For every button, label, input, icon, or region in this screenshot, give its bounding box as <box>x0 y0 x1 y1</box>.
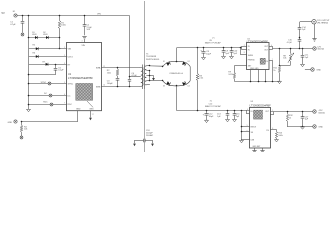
wire VIN top rail <box>17 15 130 17</box>
capacitor C2 <box>83 25 93 36</box>
node junction bridge top <box>176 61 178 63</box>
svg-text:8: 8 <box>272 128 273 130</box>
node +14V note <box>205 38 222 45</box>
diode bridge D3 lower-left <box>163 81 171 88</box>
pin label U3 EN <box>251 127 257 129</box>
svg-text:WURTH ELEK.: WURTH ELEK. <box>146 59 160 61</box>
resistor R9 SET <box>228 72 235 82</box>
resistor R6 <box>33 52 39 58</box>
pin label U2 GND <box>250 68 259 70</box>
pin label VIN left <box>68 49 72 51</box>
node junction BNC branch <box>299 48 301 50</box>
resistor R5 <box>33 45 39 51</box>
svg-text:SYNC: SYNC <box>68 84 74 86</box>
svg-text:SWB: SWB <box>96 86 101 88</box>
svg-text:LT3999EMSE#PBF: LT3999EMSE#PBF <box>68 76 93 80</box>
svg-text:5V: 5V <box>2 11 5 15</box>
svg-text:10Ω: 10Ω <box>107 73 111 75</box>
pin label SWB <box>96 86 101 88</box>
svg-text:3: 3 <box>64 63 65 65</box>
wire U2 ground bus <box>234 81 279 83</box>
terminal BNC 12V output <box>312 20 316 24</box>
wire U2 GND pins down <box>250 70 267 82</box>
svg-text:GND: GND <box>8 122 13 124</box>
wire pin2 row <box>29 56 67 58</box>
svg-text:VIN: VIN <box>97 13 101 15</box>
svg-text:10k: 10k <box>283 58 286 60</box>
capacitor C18 Y-cap <box>134 130 154 142</box>
node junction snubber top <box>117 67 119 69</box>
pin label U2 IN2 <box>248 49 250 51</box>
capacitor C16 <box>233 110 241 119</box>
capacitor C10 <box>230 48 238 57</box>
svg-text:6: 6 <box>64 94 65 96</box>
wire U2 SET <box>234 66 246 73</box>
svg-text:24.9k: 24.9k <box>228 74 233 76</box>
wire top pin stub <box>84 40 86 43</box>
inductor T1 core <box>143 65 145 90</box>
svg-text:VIN: VIN <box>68 49 72 51</box>
pin label U2 PG <box>265 61 268 63</box>
wire +12V out rail <box>273 48 313 50</box>
svg-text:10µF: 10µF <box>209 116 215 118</box>
resistor R2 snubber <box>107 68 119 77</box>
wire SWB <box>102 86 140 88</box>
pin label U3 SS <box>251 132 254 134</box>
node junction R10 top <box>279 48 281 50</box>
wire UVLO row <box>28 37 60 39</box>
ground C12 <box>205 120 209 122</box>
wire center tap to ground <box>150 76 154 79</box>
wire EN drop U2 <box>241 48 247 55</box>
wire SWA <box>102 67 140 69</box>
wire preload drop <box>197 48 199 111</box>
wire DC row <box>28 95 67 97</box>
ground EN drop U3 <box>240 140 244 142</box>
wire center tap <box>130 76 140 78</box>
pin label U2 SHDN <box>248 55 254 57</box>
svg-text:4: 4 <box>247 109 248 111</box>
op-amp U2 refdes <box>247 39 250 41</box>
svg-text:D3: D3 <box>163 86 165 88</box>
svg-text:4.7µF: 4.7µF <box>131 75 137 77</box>
op-amp U1 refdes <box>68 73 72 76</box>
ground U3 bottom pin 1 <box>252 151 256 154</box>
ground GND2 arrow <box>89 118 92 121</box>
terminal E6 GND <box>311 68 322 72</box>
pin label DC <box>68 96 71 98</box>
wire secondary tap bus <box>149 70 151 82</box>
op-amp U2 partnum <box>247 39 269 43</box>
node junction C2 <box>84 15 86 17</box>
svg-text:5: 5 <box>247 125 248 127</box>
wire +rail to U2 <box>177 47 242 49</box>
ground Y-cap left arrow <box>133 144 136 147</box>
svg-text:4: 4 <box>82 41 83 43</box>
capacitor C4 <box>128 73 138 87</box>
node junction C12 <box>206 110 208 112</box>
terminal RDC turret <box>43 102 53 106</box>
pin label GND1 <box>76 109 81 111</box>
wire U3 OUT rail <box>271 111 314 113</box>
node junction C16 <box>234 110 236 112</box>
ground C9 <box>222 56 226 58</box>
svg-text:SANYO POSCAP: SANYO POSCAP <box>205 42 222 45</box>
wire R1 to VIN pin <box>59 38 61 50</box>
ground C2 <box>82 37 86 40</box>
node junction R12 top <box>287 111 289 113</box>
wire GND1 pin down-left <box>22 111 78 122</box>
node junction R4 top <box>21 121 23 123</box>
resistor R4 <box>20 122 28 137</box>
wire secondary to bridge bottom <box>150 80 163 81</box>
terminal E1 VIN <box>13 11 17 17</box>
wire -12V lower node <box>287 126 313 128</box>
node junction C4 bottom <box>129 86 131 88</box>
node junction preload top <box>197 47 199 49</box>
resistor R10 <box>273 65 280 81</box>
capacitor C12 <box>203 110 215 120</box>
svg-text:SHDN: SHDN <box>248 55 254 57</box>
svg-text:UVLO: UVLO <box>68 57 74 59</box>
node junction C10 <box>231 47 233 49</box>
ground C11 <box>301 64 305 66</box>
node junction VIN rail <box>28 15 30 17</box>
svg-text:EN/UV: EN/UV <box>251 127 257 129</box>
node VIN net label <box>97 13 101 15</box>
node junction C11 top <box>302 48 304 50</box>
svg-text:SANYO POSCAP: SANYO POSCAP <box>205 105 222 108</box>
terminal E5 12V <box>313 46 325 50</box>
terminal GND turret E2 <box>8 120 18 124</box>
svg-text:GND: GND <box>89 109 94 111</box>
wire U2 OUT stubs <box>269 46 272 49</box>
capacitor C14 upper <box>298 22 307 31</box>
svg-text:7: 7 <box>64 103 65 105</box>
svg-text:5: 5 <box>64 82 65 84</box>
ground secondary center tap arrow <box>152 78 155 81</box>
svg-text:GND: GND <box>318 127 323 129</box>
node junction preload bottom <box>197 110 199 112</box>
svg-text:RDC: RDC <box>68 104 73 106</box>
pin label U3 OUT <box>265 111 270 113</box>
node junction R1 top <box>59 15 61 17</box>
ground C13 <box>226 119 230 121</box>
wire GND2 pin down <box>91 111 94 118</box>
inductor T1 secondary winding <box>144 66 146 85</box>
svg-text:4148: 4148 <box>32 34 36 36</box>
wire pin3 row <box>29 64 67 66</box>
node U3 exposed pad <box>254 110 263 119</box>
capacitor C3 snubber <box>107 76 120 86</box>
ground Y-cap right arrow <box>151 144 154 147</box>
svg-text:1: 1 <box>272 110 273 112</box>
svg-text:LT3065EDD#PBF: LT3065EDD#PBF <box>247 39 269 43</box>
terminal E8 GND2 <box>313 125 324 129</box>
svg-text:4.7µF: 4.7µF <box>10 24 16 26</box>
node BNC label <box>317 20 330 24</box>
node junction C17 top <box>302 111 304 113</box>
svg-text:8: 8 <box>244 52 245 54</box>
svg-text:10µF: 10µF <box>206 53 212 55</box>
pin label RDC <box>68 104 73 106</box>
node junction center tap <box>129 76 131 78</box>
pin label U2 SET <box>248 66 252 68</box>
ground primary rail <box>27 109 31 111</box>
svg-text:GND: GND <box>76 109 81 111</box>
node junction C5 top <box>55 64 57 66</box>
svg-text:ILIM: ILIM <box>251 139 255 141</box>
svg-text:1k: 1k <box>273 70 275 72</box>
pin label U2 IN1 <box>248 46 250 48</box>
diode D2 <box>43 32 48 39</box>
terminal E7 -12V <box>313 110 325 115</box>
diode bridge D4 lower-right <box>182 81 190 88</box>
node junction EN drop U2 <box>240 47 242 49</box>
wire Y-cap right stub <box>152 141 154 144</box>
diode bridge D2 upper-right <box>182 61 190 66</box>
svg-text:SWA: SWA <box>96 67 101 70</box>
capacitor C13 <box>217 110 229 119</box>
svg-text:(FILTERED): (FILTERED) <box>317 23 328 25</box>
svg-text:VIN: VIN <box>82 45 86 47</box>
svg-text:10: 10 <box>103 85 105 87</box>
pin label SYNC <box>68 84 74 86</box>
wire secondary to bridge top <box>149 65 164 68</box>
pin label U3 PG <box>266 130 269 132</box>
resistor R13 PG <box>275 132 283 140</box>
pin label U2 OUT1 <box>264 46 269 48</box>
svg-text:6: 6 <box>247 130 248 132</box>
capacitor C11 <box>301 48 310 64</box>
ground BNC shield <box>312 39 316 42</box>
resistor R1 <box>58 16 67 38</box>
svg-text:GND SET: GND SET <box>252 146 261 148</box>
diode bridge D1 upper-left <box>163 61 171 66</box>
ground C8 <box>202 57 206 59</box>
node junction R1 bottom <box>59 37 61 39</box>
capacitor C1 <box>10 16 24 33</box>
node U2 exposed pad <box>260 58 265 64</box>
resistor R12 <box>286 112 293 127</box>
node junction between caps <box>299 29 301 39</box>
wire pot bottom row <box>280 65 291 67</box>
node junction EN drop U3 <box>241 110 243 112</box>
svg-text:C12:: C12: <box>209 103 213 105</box>
ground R13 <box>275 140 279 142</box>
wire BNC top <box>300 21 312 23</box>
wire RDC row <box>28 104 67 106</box>
terminal SYNC turret <box>41 82 51 85</box>
wire C5 return row <box>28 74 56 76</box>
wire bridge top to +rail <box>176 48 178 62</box>
node junction bridge bottom <box>176 85 178 87</box>
wire GND terminal stub <box>305 69 311 71</box>
node -14V note <box>205 101 222 109</box>
op-amp U1 box LT3999 <box>67 43 102 111</box>
diode D1 <box>32 32 37 39</box>
node junction C9 <box>223 47 225 49</box>
ground C10 <box>230 56 234 58</box>
pin label U3 GND <box>252 146 261 148</box>
svg-text:17: 17 <box>92 114 94 116</box>
svg-text:D1: D1 <box>163 61 165 63</box>
svg-text:GND GND: GND GND <box>250 68 259 70</box>
node U1 exposed pad <box>76 84 93 101</box>
node junction C13 <box>227 110 229 112</box>
wire BNC shield down <box>314 24 316 39</box>
wire pad to GND diagonal <box>87 101 93 107</box>
svg-text:100k: 100k <box>278 135 282 137</box>
wire VIN feed down <box>129 16 131 77</box>
wire U3 bottom pins <box>255 148 263 151</box>
diode bridge B1 label <box>169 73 183 75</box>
svg-text:D4: D4 <box>188 86 190 88</box>
pin label U3 IN <box>251 111 253 113</box>
capacitor C17 <box>301 112 309 127</box>
svg-text:GND: GND <box>316 69 321 71</box>
capacitor C8 <box>200 48 211 58</box>
wire VDD top pin <box>84 16 86 25</box>
pin label U3 ILIM <box>251 139 255 141</box>
svg-text:7: 7 <box>272 59 273 61</box>
node junction C8 <box>203 47 205 49</box>
wire secondary tap stubs <box>146 66 150 85</box>
wire Y-cap left stub <box>134 141 136 144</box>
svg-text:1k: 1k <box>289 117 291 119</box>
svg-text:RDC: RDC <box>43 102 48 104</box>
inductor T1 label <box>146 54 160 61</box>
resistor R3 preload <box>196 74 204 81</box>
pin label RT <box>68 64 71 66</box>
svg-text:(*): (*) <box>210 101 212 103</box>
pin label GND2 <box>89 109 94 111</box>
wire isolation barrier <box>144 1 146 152</box>
pin label U2 PWRGD <box>248 60 256 62</box>
svg-text:6: 6 <box>271 45 272 47</box>
node VIN input label <box>2 11 5 15</box>
resistor R7 <box>43 62 49 66</box>
ground C16 <box>233 119 237 121</box>
svg-text:100pF: 100pF <box>107 83 114 85</box>
pin label U2 OUT2 <box>264 49 269 51</box>
resistor R8 pot <box>283 48 294 66</box>
svg-text:2: 2 <box>64 55 65 57</box>
terminal turret below R4 <box>20 136 23 139</box>
capacitor C9 <box>222 48 230 57</box>
wire U2 PG down <box>269 61 273 83</box>
wire bridge bottom to -rail <box>176 86 178 110</box>
wire U3 IN stubs <box>246 110 250 113</box>
svg-text:2: 2 <box>244 45 245 47</box>
pin numbers <box>64 41 273 133</box>
wire R10 drop <box>279 48 281 65</box>
svg-text:1: 1 <box>64 47 65 49</box>
svg-text:D2: D2 <box>188 61 190 63</box>
op-amp U3 box LT3090 <box>250 108 271 149</box>
wire pin1 VIN row <box>29 48 67 50</box>
wire U3 OUT stubs <box>271 112 274 115</box>
ground -12V node <box>301 127 305 129</box>
wire U2 IN stubs <box>242 46 247 49</box>
ground U2 bus end <box>278 81 282 83</box>
svg-text:250VAC: 250VAC <box>146 134 154 137</box>
wire U3 PG <box>271 130 277 132</box>
inductor T1 primary winding <box>140 68 144 87</box>
op-amp U3 refdes <box>251 101 254 103</box>
svg-text:LT3090EDD#PBF: LT3090EDD#PBF <box>250 103 272 107</box>
op-amp U1 partnum <box>68 76 93 80</box>
node junction preload2 <box>279 65 281 67</box>
pin label SWA <box>96 67 101 70</box>
wire SYNC row <box>28 83 67 85</box>
node junction C1 <box>22 15 24 17</box>
wire -rail to U3 <box>176 110 249 112</box>
svg-text:0.1µF: 0.1µF <box>58 70 64 72</box>
svg-text:12: 12 <box>103 66 105 68</box>
svg-text:PWRGD: PWRGD <box>248 60 256 62</box>
wire VIN vertical rail <box>28 16 30 110</box>
op-amp U2 box LT3065 <box>247 43 270 70</box>
capacitor C5 <box>54 64 65 75</box>
svg-text:4148: 4148 <box>43 34 47 36</box>
terminal DC turret <box>44 93 52 97</box>
wire EN drop U3 <box>241 110 250 140</box>
diode bridge B1 outline <box>163 61 190 86</box>
pin label UVLO <box>68 57 74 59</box>
svg-text:300mA: 300mA <box>318 112 325 115</box>
terminal GND turret below C1 <box>21 33 24 36</box>
svg-text:4.7µF: 4.7µF <box>287 42 293 44</box>
svg-text:300mA: 300mA <box>317 48 324 51</box>
capacitor C15 lower <box>287 40 302 49</box>
ground U3 bottom pin 2 <box>260 151 264 154</box>
svg-text:CDBHD140L-G: CDBHD140L-G <box>169 73 183 75</box>
node junction snubber bottom <box>117 86 119 88</box>
op-amp U3 partnum <box>250 103 272 107</box>
svg-text:SYNC: SYNC <box>41 82 47 84</box>
pin label VIN top <box>82 45 86 47</box>
